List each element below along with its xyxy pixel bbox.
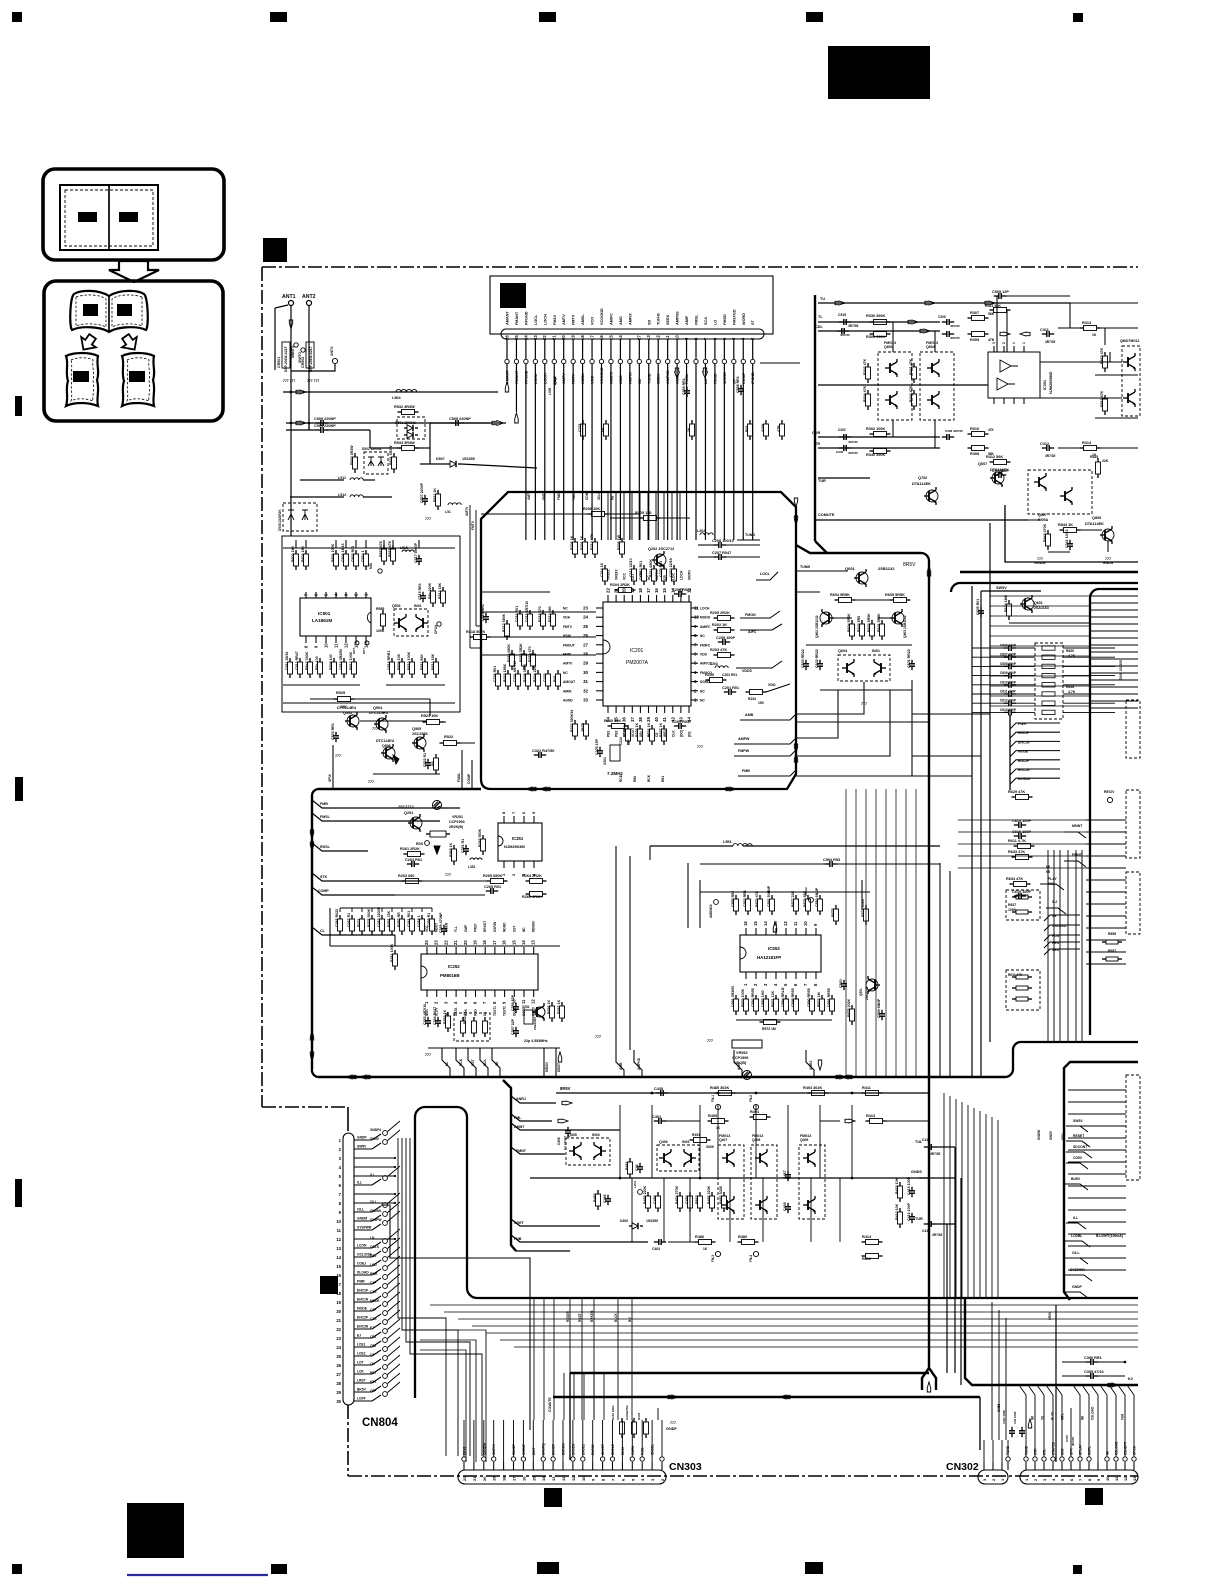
IC553 pin 4 [775, 972, 777, 979]
svg-text:IC201: IC201 [630, 648, 644, 654]
resistor R415 10K [899, 1182, 901, 1186]
svg-text:27: 27 [583, 642, 588, 647]
thick bus x=570 drop [569, 1373, 571, 1460]
CN303 terminal [581, 1457, 585, 1461]
svg-text:OP1N: OP1N [434, 625, 438, 634]
svg-text:15: 15 [511, 940, 516, 945]
wire inter-block vertical [905, 789, 907, 1077]
svg-text:DSRIN: DSRIN [493, 921, 497, 932]
svg-text:R413: R413 [866, 1114, 875, 1118]
component row below IC553 [735, 995, 737, 999]
svg-text:R308: R308 [970, 452, 979, 456]
svg-text:PLAY: PLAY [1051, 1411, 1055, 1420]
svg-text:DTC114EU: DTC114EU [337, 706, 356, 710]
terminal MNNTO [294, 343, 298, 347]
svg-text:R410 10K: R410 10K [895, 1203, 899, 1220]
connector CN302 left body [978, 1470, 1008, 1484]
transistor pair Q408 FMG13 [751, 1145, 777, 1219]
capacitor C264 R01 [407, 863, 412, 865]
svg-text:Q501: Q501 [392, 604, 401, 608]
CN303 terminal [462, 1457, 466, 1461]
wire CN302 drop [1109, 1385, 1116, 1408]
fuse CR501 DSP-201W-A21F [282, 342, 290, 368]
svg-text:C257 22P: C257 22P [511, 1018, 515, 1035]
CN804 terminal C2P [383, 1311, 388, 1316]
svg-text:R510 100K: R510 100K [407, 651, 411, 670]
svg-text:SW5V: SW5V [1073, 1119, 1083, 1123]
IC252 pin 2 [436, 990, 438, 997]
svg-text:R604 5R5K: R604 5R5K [847, 613, 851, 632]
transistor Q602 2SB1132 [820, 612, 832, 624]
resistor R525 10K [334, 698, 338, 700]
capacitor C519 4R7/35 [839, 321, 844, 323]
icon: left sheet [66, 353, 98, 406]
CN804 terminal ILL [383, 1176, 388, 1181]
svg-text:TUR: TUR [818, 479, 826, 483]
IC501 pin 5 [325, 592, 327, 598]
svg-text:FMB: FMB [742, 769, 750, 773]
svg-text:410K: 410K [761, 423, 765, 432]
svg-text:R257 1K: R257 1K [557, 999, 561, 1014]
IC252 pin 4 [455, 990, 457, 997]
svg-text:R5x 220K: R5x 220K [428, 582, 432, 599]
IC501 pin 4 [335, 592, 337, 598]
IC501 pin 11 [335, 636, 337, 643]
svg-text:D502 15V241: D502 15V241 [362, 447, 382, 451]
svg-text:WORD: WORD [742, 313, 746, 325]
svg-text:C599 6NNP: C599 6NNP [877, 998, 881, 1018]
capacitor C251 R1 [465, 845, 467, 849]
svg-text:TU: TU [820, 297, 825, 301]
svg-text:Q601: Q601 [845, 566, 856, 571]
wire tuner pin drop [525, 364, 527, 368]
wire CN302 drop [1019, 1385, 1026, 1408]
wire tuner pin drop [657, 364, 659, 368]
svg-text:C591 3R3/50: C591 3R3/50 [731, 986, 735, 1007]
CN303 terminal [630, 1457, 634, 1461]
wire IC553-right [958, 843, 1090, 845]
capacitor C515 RR1 [422, 592, 424, 596]
resistor R410 10K [899, 1208, 901, 1212]
wires to CN302 left pill [991, 1302, 993, 1440]
resistor R530 3R3W [354, 453, 356, 457]
arrows on y=1077 [346, 1075, 356, 1079]
capacitor C206 R022 [674, 593, 679, 595]
wire vertical from tuner header [686, 368, 688, 540]
capacitor C301 100P [1011, 1427, 1013, 1431]
svg-text:C558 RR1: C558 RR1 [736, 376, 740, 393]
svg-text:Q251: Q251 [404, 811, 413, 815]
wire tuner pin drop [610, 364, 612, 368]
svg-text:C591 RR55: C591 RR55 [827, 988, 831, 1007]
svg-text:C207 R047: C207 R047 [712, 551, 731, 555]
svg-text:OFF: OFF [370, 1389, 376, 1393]
svg-text:R256 1K: R256 1K [547, 999, 551, 1014]
wire ANTG [291, 364, 335, 371]
svg-text:AMFIX: AMFIX [628, 313, 632, 325]
IC501 pin 13 [355, 636, 357, 643]
svg-text:R512 15K: R512 15K [431, 653, 435, 670]
svg-text:C416 100P: C416 100P [907, 1202, 911, 1221]
svg-text:AMOUT: AMOUT [563, 680, 575, 684]
svg-text:R305: R305 [970, 338, 979, 342]
tuner test point [751, 359, 755, 363]
svg-text:DTA114EK: DTA114EK [1085, 522, 1104, 526]
svg-text:VREF2: VREF2 [615, 569, 619, 580]
svg-text:20: 20 [463, 940, 468, 945]
wire right block entry [990, 615, 1090, 617]
svg-text:CE1: CE1 [370, 1335, 376, 1339]
svg-text:12: 12 [783, 921, 788, 926]
wire CN303 bus drop [617, 1298, 619, 1420]
IC553 pin 15 [755, 928, 757, 935]
resistor R605 5R5K [890, 599, 894, 601]
wire inter-block vertical [895, 789, 897, 1077]
svg-text:R585: R585 [376, 607, 384, 611]
svg-text:R232: R232 [748, 697, 756, 701]
svg-text:GN55: GN55 [997, 1403, 1001, 1412]
svg-text:R414: R414 [862, 1235, 872, 1239]
schematic border below CN804 [347, 1405, 349, 1476]
svg-text:R01: R01 [745, 425, 749, 432]
IC201 pin 39 [648, 706, 650, 713]
svg-text:21: 21 [472, 1476, 477, 1481]
svg-text:BRSOT: BRSOT [483, 921, 487, 932]
svg-text:C322 R47/50: C322 R47/50 [532, 749, 554, 753]
svg-text:NC: NC [700, 634, 705, 638]
svg-text:R412: R412 [862, 1257, 871, 1261]
capacitor C456 100/10 [567, 1127, 569, 1131]
resistor R232 150 [746, 691, 750, 693]
wire tuner pin drop [733, 364, 735, 368]
IC201 pin 42 [672, 706, 674, 713]
wire right block entry [990, 595, 1090, 597]
terminal FN-1 [715, 1104, 720, 1109]
bottom bus tongue [415, 1107, 1138, 1398]
svg-text:LRST: LRST [357, 1379, 366, 1383]
IC501 pin 10 [325, 636, 327, 643]
svg-text:LO: LO [713, 320, 717, 325]
svg-text:C611 100P: C611 100P [1000, 690, 1017, 694]
resistor R401 [750, 1116, 754, 1118]
resistor R217 680K [506, 620, 508, 624]
svg-text:R570 100K: R570 100K [741, 988, 745, 1007]
wire CN303 riser [573, 1373, 575, 1420]
wire tuner pin drop [591, 364, 593, 368]
svg-text:24: 24 [336, 1345, 341, 1350]
svg-text:R633 47K: R633 47K [1008, 850, 1025, 854]
svg-text:40: 40 [654, 717, 659, 722]
wire bus horizontal [486, 1332, 1138, 1334]
svg-text:DXGEN: DXGEN [571, 1443, 575, 1455]
svg-text:19: 19 [336, 1300, 341, 1305]
wires Q601 cluster [796, 591, 820, 593]
resistor R611 4.7K [1014, 845, 1018, 847]
capacitor C613 100P [1004, 711, 1009, 713]
capacitor C308 4R7/35 [942, 436, 947, 438]
transistor Q504 DTC114EU [376, 718, 388, 730]
svg-text:PM2007A: PM2007A [626, 660, 649, 666]
wire inter-block vertical [865, 789, 867, 1077]
svg-text:CTR: CTR [1034, 1448, 1038, 1455]
IC251 pin 8 [503, 816, 505, 823]
svg-text:32: 32 [583, 688, 588, 693]
coil L511 [350, 478, 363, 480]
svg-text:R304 47K: R304 47K [863, 385, 867, 402]
svg-text:AMPNS: AMPNS [676, 311, 680, 325]
IC201 pin 2 [691, 690, 698, 692]
svg-text:C262 2200P: C262 2200P [377, 906, 381, 927]
svg-text:C341 10/16: C341 10/16 [1065, 529, 1069, 548]
svg-text:26: 26 [336, 1363, 341, 1368]
long rail above IC252 [330, 945, 560, 947]
resistor network element [1042, 710, 1055, 714]
svg-text:C504 220NP: C504 220NP [314, 424, 336, 428]
svg-text:SYSPW: SYSPW [370, 1218, 382, 1222]
IC252 pin 7 [484, 990, 486, 997]
svg-text:C510 1: C510 1 [361, 550, 365, 562]
diode D507 1SS355 [447, 463, 450, 465]
capacitor C558 RR1 [740, 385, 742, 389]
wire bus vertical [973, 1108, 975, 1298]
IC501 pin 12 [345, 636, 347, 643]
wire ANT2 jog [308, 423, 310, 430]
transistor Q202 2SC2712 [654, 554, 666, 566]
svg-text:OCLS: OCLS [370, 1245, 379, 1249]
svg-text:17: 17 [492, 940, 497, 945]
resistor R532 3R3W [398, 411, 402, 413]
wire vertical from tuner header [723, 368, 725, 540]
wire CN302 drop [1028, 1385, 1035, 1408]
IC251 pin 7 [513, 816, 515, 823]
svg-text:LOT: LOT [357, 1361, 364, 1365]
IC201 pin 41 [664, 706, 666, 713]
tuner test point [703, 359, 707, 363]
svg-text:13: 13 [551, 1476, 556, 1481]
CN302 terminal CPR [1069, 1457, 1073, 1461]
svg-text:R509 10K: R509 10K [397, 653, 401, 670]
svg-text:LOCL: LOCL [534, 314, 538, 325]
svg-text:FN-2: FN-2 [749, 1095, 753, 1102]
svg-text:R571 12K: R571 12K [771, 990, 775, 1007]
svg-text:13: 13 [354, 643, 359, 648]
component R303 RRR [645, 1418, 647, 1422]
svg-text:R451: R451 [692, 1133, 700, 1137]
svg-text:4R7/35: 4R7/35 [1071, 1437, 1075, 1446]
svg-text:IN04: IN04 [592, 1133, 600, 1137]
svg-text:C523 RR1: C523 RR1 [331, 723, 335, 740]
tuner test point [514, 359, 518, 363]
resistor R304 47K [867, 390, 869, 394]
arrows IC553 bottom [818, 1060, 822, 1070]
bus 8R5V thick [796, 545, 921, 553]
IC201 pin 26 [596, 635, 603, 637]
svg-text:ILL: ILL [370, 1173, 375, 1177]
svg-text:ANT1: ANT1 [282, 294, 296, 300]
CN303 terminal [640, 1457, 644, 1461]
resistor R308 56K [968, 447, 972, 449]
terminal ANT2 [307, 301, 312, 306]
svg-text:R342 47K: R342 47K [909, 385, 913, 402]
svg-text:R456 220K: R456 220K [707, 1185, 711, 1204]
svg-text:FMSD: FMSD [723, 314, 727, 325]
svg-text:C305: C305 [938, 315, 946, 319]
svg-text:DGND: DGND [700, 680, 710, 684]
resistor R341 47K [913, 363, 915, 367]
coil L202 [700, 533, 713, 535]
svg-text:C512 RR47: C512 RR47 [295, 651, 299, 670]
svg-text:R340 390K: R340 390K [866, 453, 885, 457]
IC553 pin 2 [755, 972, 757, 979]
capacitor C257 22P [515, 1027, 517, 1031]
svg-text:K5V: K5V [370, 1380, 377, 1384]
svg-text:CN5: CN5 [1061, 1448, 1065, 1455]
svg-text:25: 25 [583, 624, 588, 629]
IC553 HA12181FP [740, 935, 821, 972]
right riser to keypad block [1005, 1042, 1138, 1077]
svg-text:16: 16 [521, 1476, 526, 1481]
svg-text:Q409: Q409 [800, 1138, 808, 1142]
wire tuner pin drop [553, 364, 555, 368]
svg-text:CPCA: CPCA [1133, 1445, 1137, 1455]
svg-text:Q604: Q604 [838, 649, 848, 653]
tuner module label (redacted) [500, 283, 526, 308]
resistor array R601-R604 [851, 620, 853, 624]
connector CN804 body [343, 1133, 354, 1405]
svg-text:R314: R314 [1082, 441, 1092, 445]
dashed box Q808 transistors [1122, 346, 1140, 416]
component row audio [647, 1192, 649, 1196]
wire bus horizontal [458, 1318, 1138, 1320]
svg-text:CLK: CLK [671, 730, 675, 737]
IC252 pin 19 [475, 947, 477, 954]
svg-text:PWR: PWR [357, 1280, 365, 1284]
wire vertical from tuner header [695, 368, 697, 540]
CN302 terminal TGND [1024, 1457, 1028, 1461]
svg-text:MDET: MDET [435, 923, 439, 932]
svg-text:10: 10 [324, 643, 329, 648]
terminal FN-2 [753, 1104, 758, 1109]
svg-text:Q406: Q406 [659, 1140, 668, 1144]
svg-text:GNDM: GNDM [357, 1217, 367, 1221]
svg-text:R261 2R2K: R261 2R2K [400, 847, 420, 851]
resistor R604 5R5K [835, 599, 839, 601]
IC501 pin 9 [315, 636, 317, 643]
svg-text:CSLOAD: CSLOAD [1091, 1406, 1095, 1420]
resistor R411 [862, 1092, 866, 1094]
svg-text:R637: R637 [1008, 903, 1016, 907]
svg-text:L202: L202 [697, 529, 705, 533]
icon: down arrow [109, 261, 159, 282]
svg-text:12: 12 [336, 1237, 341, 1242]
svg-text:RDSL: RDSL [320, 845, 331, 849]
svg-text:R5x3 330K: R5x3 330K [305, 651, 309, 670]
svg-text:R461: R461 [625, 1161, 629, 1170]
CN804 terminal MODE [383, 1302, 388, 1307]
wire audio bottom rail [570, 1241, 648, 1243]
svg-text:C594 R53: C594 R53 [823, 858, 840, 862]
svg-text:14: 14 [364, 643, 369, 648]
svg-text:RECIV: RECIV [1104, 790, 1115, 794]
resistor R511 56K [990, 309, 994, 311]
svg-text:4R7/35: 4R7/35 [1045, 340, 1056, 344]
svg-text:R205 1W: R205 1W [617, 534, 621, 550]
svg-text:24: 24 [583, 615, 588, 620]
resistor R266 560K [482, 835, 484, 839]
CN303 terminal [610, 1457, 614, 1461]
svg-text:1: 1 [1022, 342, 1026, 344]
svg-text:AMIN: AMIN [563, 689, 572, 693]
svg-text:SYSPWR: SYSPWR [357, 1226, 372, 1230]
boundary y=1077 [318, 1076, 1005, 1078]
CN804 terminal CE1 [383, 1338, 388, 1343]
svg-text:PREF: PREF [474, 923, 478, 932]
svg-text:R220 10K: R220 10K [604, 719, 621, 723]
IC201 pin 14 [672, 595, 674, 602]
CN804 terminal GNDP4 [383, 1131, 388, 1136]
CN804 terminal OCLS [383, 1248, 388, 1253]
resistor R412 [862, 1255, 866, 1257]
svg-text:DXNST: DXNST [552, 1444, 556, 1455]
wire ANT bus to header [290, 391, 292, 393]
svg-text:R210 47K: R210 47K [590, 533, 594, 550]
capacitor C465 [639, 1163, 641, 1167]
svg-text:CSLOAD: CSLOAD [1115, 1441, 1119, 1455]
svg-text:33: 33 [583, 698, 588, 703]
svg-text:C454: C454 [685, 1195, 689, 1204]
capacitor C205 100P [718, 641, 723, 643]
wire tuner pin drop [676, 364, 678, 368]
capacitor C413 4R7/35 [924, 1146, 929, 1148]
svg-text:CTAPED: CTAPED [1052, 1441, 1056, 1455]
terminal FN-4 [753, 1251, 758, 1256]
IC201 pin 38 [639, 706, 641, 713]
svg-text:VCO: VCO [591, 317, 595, 325]
svg-text:13: 13 [773, 921, 778, 926]
svg-text:Q505: Q505 [412, 727, 421, 731]
svg-text:R203 47K: R203 47K [710, 648, 727, 652]
wire tuner pin drop [544, 364, 546, 368]
svg-text:LOD: LOD [370, 1263, 377, 1267]
wire vertical from tuner header [582, 368, 584, 540]
svg-text:22: 22 [443, 940, 448, 945]
IC252 pin 11 [523, 990, 525, 997]
IC501 pin 1 [365, 592, 367, 598]
svg-text:R515 47K: R515 47K [388, 540, 392, 557]
svg-text:C610 100P: C610 100P [1000, 680, 1017, 684]
svg-text:COMP: COMP [318, 889, 329, 893]
capacitor C312 4R7/35 [1042, 447, 1047, 449]
rail above IC553 [700, 891, 870, 893]
svg-text:C527 2200P: C527 2200P [420, 482, 424, 503]
sub box around Q805 [1005, 505, 1138, 562]
CN303 terminal [660, 1457, 664, 1461]
svg-text:C457: C457 [1065, 1434, 1069, 1442]
tuner test point [580, 359, 584, 363]
wire CN303 bus drop [593, 1298, 595, 1420]
svg-text:STK: STK [320, 875, 328, 879]
CN302 terminal CPLAY [1078, 1457, 1082, 1461]
arrow on ANT1 wire [289, 320, 292, 329]
IC501 pin 8 [305, 636, 307, 643]
registration mark top x=539 [539, 12, 556, 22]
svg-text:VDD: VDD [768, 683, 776, 687]
resistor R203 47K [714, 654, 718, 656]
svg-text:LCK: LCK [357, 1370, 364, 1374]
svg-text:FMTV: FMTV [471, 520, 475, 530]
svg-text:FMSL: FMSL [695, 314, 699, 325]
svg-text:R480: R480 [738, 1235, 747, 1239]
